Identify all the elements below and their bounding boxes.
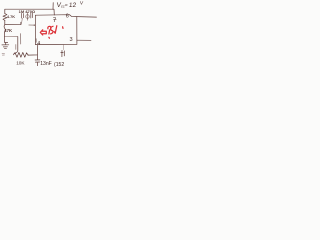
node Vcc riser (52, 3, 54, 10)
wire top rail (5, 9, 55, 15)
svg-text:47K: 47K (4, 28, 13, 33)
svg-text:1M 470Ω: 1M 470Ω (19, 9, 36, 14)
capacitor C3 13nF (35, 55, 40, 66)
wire pin3 out (77, 39, 91, 41)
capacitor C1 (22, 13, 24, 18)
annotation red stroke (54, 26, 57, 34)
annotation red dot1 (48, 36, 51, 39)
svg-text:10K: 10K (16, 61, 25, 66)
wire branch1 down (4, 20, 6, 24)
wire into box left (29, 24, 35, 26)
ground (5, 43, 7, 45)
svg-text:4: 4 (37, 41, 40, 47)
wire pin1 stub (63, 45, 65, 50)
svg-text:V: V (80, 1, 85, 7)
svg-text:6: 6 (66, 14, 69, 20)
svg-text:12: 12 (69, 2, 77, 9)
label Vcc=12V (56, 1, 84, 9)
svg-text:4.7K: 4.7K (7, 14, 15, 19)
svg-text:13nF: 13nF (40, 61, 52, 67)
node junction dot (34, 25, 35, 26)
annotation red s (51, 26, 53, 34)
capacitor C2 (31, 13, 33, 18)
node dot R3 end (28, 55, 29, 56)
annotation red arrow (40, 26, 63, 39)
pin 1 tick (35, 39, 37, 43)
resistor R3 10K (13, 52, 28, 57)
wire mid horizontal (5, 36, 18, 38)
wire branch1 wiggle down (4, 25, 8, 43)
svg-text:7: 7 (53, 18, 57, 24)
annotation red dot2 (62, 27, 64, 29)
IC U1 555 box (35, 15, 96, 17)
svg-text:=: = (64, 3, 68, 9)
wire stub segment (15, 45, 17, 50)
wire junction horizontal (5, 22, 21, 24)
wire bottom to riser (28, 45, 38, 55)
wire second vertical (20, 34, 22, 44)
svg-text:3: 3 (70, 37, 73, 43)
ground arrow (61, 50, 65, 56)
annotation red question glyph (48, 26, 51, 34)
pin 7 crossbar (54, 19, 57, 21)
svg-text:(152: (152 (54, 62, 64, 68)
wire drop to bottom (14, 37, 18, 54)
potentiometer P1 (26, 15, 30, 19)
resistor R1 (3, 14, 7, 21)
